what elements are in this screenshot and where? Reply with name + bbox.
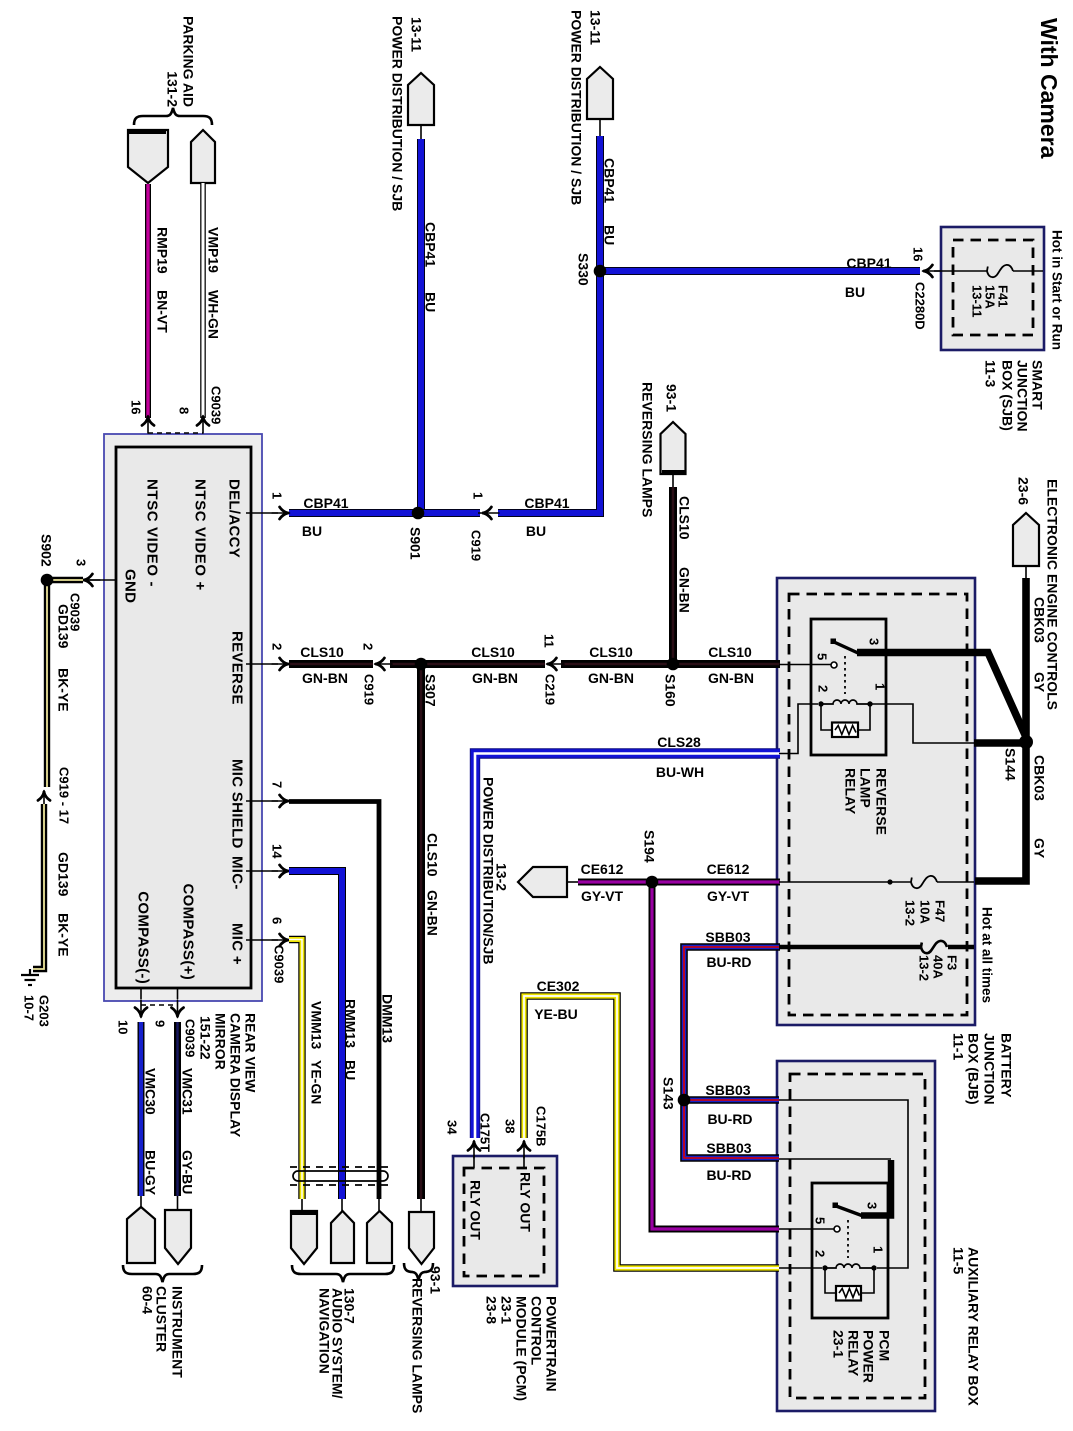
svg-text:YE-GN: YE-GN (309, 1060, 325, 1104)
svg-text:S144: S144 (1003, 748, 1019, 781)
svg-text:DEL/ACCY: DEL/ACCY (226, 479, 243, 558)
tap node on F47 line (887, 879, 892, 884)
svg-text:SMART: SMART (1030, 360, 1046, 410)
powertrain control module PCM outline (453, 1156, 557, 1286)
svg-text:C2280D: C2280D (913, 282, 928, 330)
svg-text:CBP41: CBP41 (303, 495, 348, 511)
thin line CLS10 to relay pin 5 (779, 664, 831, 666)
svg-text:GY-VT: GY-VT (581, 888, 623, 904)
connector reversing lamps top (661, 422, 686, 474)
svg-text:SBB03: SBB03 (706, 1140, 751, 1156)
fuse F3 40A (921, 941, 947, 953)
svg-text:COMPASS(-): COMPASS(-) (135, 891, 152, 984)
svg-text:REVERSE: REVERSE (229, 631, 246, 705)
connector audio VMM13 (291, 1211, 317, 1264)
svg-text:5: 5 (813, 1217, 828, 1224)
wire CLS10 GN-BN C919/S307 to C219 (390, 660, 545, 668)
svg-text:CAMERA DISPLAY: CAMERA DISPLAY (228, 1013, 244, 1138)
svg-text:BU-RD: BU-RD (707, 1111, 752, 1127)
splice S330 (594, 265, 607, 278)
pin 8 fork (197, 416, 209, 434)
svg-text:5: 5 (815, 653, 830, 660)
connector reversing lamps bottom (409, 1212, 434, 1264)
wire CLS10 GN-BN C219/S160 to BJB (561, 660, 780, 668)
svg-text:RELAY: RELAY (843, 768, 859, 815)
wire CLS10 GN-BN from reversing lamps (669, 487, 677, 664)
wire CBP41 BU long run to SJB (600, 267, 920, 275)
wire CLS10 GN-BN pin2 to C919 (289, 660, 373, 668)
relay actuator dotted line (844, 656, 846, 694)
svg-text:NAVIGATION: NAVIGATION (317, 1288, 333, 1374)
connector instrument cluster VMC31 (165, 1210, 191, 1264)
svg-text:151-22: 151-22 (198, 1016, 214, 1060)
aux relay actuator dotted line (847, 1220, 849, 1258)
PCM power relay box (812, 1183, 888, 1318)
svg-text:BOX (SJB): BOX (SJB) (1000, 360, 1016, 431)
svg-text:GN-BN: GN-BN (708, 670, 754, 686)
svg-text:16: 16 (911, 247, 926, 261)
mirror pin 1 fork (272, 507, 290, 519)
splice S902 (41, 574, 54, 587)
svg-text:10-7: 10-7 (22, 995, 37, 1021)
brace over parking aid connectors (134, 108, 212, 125)
splice S194 (646, 876, 659, 889)
svg-text:RLY OUT: RLY OUT (468, 1180, 484, 1240)
svg-text:JUNCTION: JUNCTION (1015, 360, 1031, 432)
brace under audio connectors (292, 1265, 394, 1282)
svg-text:REVERSING LAMPS: REVERSING LAMPS (640, 382, 656, 517)
svg-text:10: 10 (116, 1020, 131, 1034)
wire CE612 GY-VT (578, 879, 780, 886)
svg-text:GN-BN: GN-BN (425, 890, 441, 936)
link lines to audio connectors (302, 1199, 379, 1212)
twisted pair symbol (290, 1167, 392, 1185)
aux relay suppression resistor (836, 1286, 861, 1301)
PCM pin 38 fork (518, 1141, 530, 1159)
PCM pin 34 fork (468, 1141, 480, 1159)
PCM inner dashed box (464, 1168, 544, 1276)
wire CBK03 GY upper (1022, 578, 1030, 742)
splice S307 (415, 658, 428, 671)
pin 1 tail (246, 512, 278, 514)
relay suppression resistor (832, 723, 858, 738)
smart junction box SJB outline (941, 227, 1044, 350)
wire SBB03 BU-RD from BJB F3 down to S143 (684, 947, 780, 1100)
svg-text:CBK03: CBK03 (1032, 755, 1048, 801)
svg-text:PARKING AID: PARKING AID (181, 16, 197, 107)
wire GD139 BK-YE down (44, 580, 50, 787)
SJB fuse F41 feed line (934, 270, 1043, 272)
fuse F3 feed line (779, 945, 974, 949)
svg-text:VMC30: VMC30 (143, 1068, 159, 1115)
svg-text:23-1: 23-1 (499, 1296, 515, 1324)
svg-text:COMPASS(+): COMPASS(+) (180, 884, 197, 980)
svg-text:BU-WH: BU-WH (656, 764, 704, 780)
connector audio RMM13 (331, 1211, 354, 1263)
mirror pin 3 fork (83, 574, 101, 586)
svg-text:GY: GY (1032, 838, 1048, 859)
wire VMP19 WH-GN (200, 183, 206, 418)
thin line SBB03 to aux pin 3 (779, 1158, 891, 1160)
coil pin 2 node (818, 701, 823, 706)
svg-text:C919 - 17: C919 - 17 (57, 767, 72, 824)
svg-text:F3: F3 (945, 955, 960, 970)
svg-text:14: 14 (270, 844, 285, 859)
svg-text:CE612: CE612 (581, 861, 624, 877)
pin 6 tail (246, 939, 278, 941)
svg-text:BK-YE: BK-YE (56, 913, 72, 957)
svg-text:NTSC VIDEO -: NTSC VIDEO - (144, 479, 161, 587)
splice S143 (678, 1094, 691, 1107)
wire CBP41 BU from mirror pin 1 to S901 (289, 509, 418, 517)
in-line connector C219 pin 11 (547, 658, 565, 670)
svg-text:CBP41: CBP41 (846, 255, 891, 271)
svg-text:16: 16 (129, 400, 144, 414)
pin 34 tail (473, 1155, 475, 1168)
svg-text:C9039: C9039 (183, 1019, 198, 1057)
pin 16 fork (142, 416, 154, 434)
svg-text:10A: 10A (918, 900, 933, 924)
wire GD139 BK-YE to S902 (47, 577, 83, 583)
wire CBP41 BU through S330 down to junction corner (498, 136, 600, 513)
mirror pin 6 fork (272, 934, 290, 946)
dashed connector line C9039 top (148, 432, 203, 434)
svg-text:9: 9 (153, 1020, 168, 1027)
svg-text:2: 2 (816, 685, 831, 692)
svg-text:7: 7 (270, 781, 285, 788)
resistor parallel links (821, 704, 870, 730)
mirror pin 14 fork (272, 865, 290, 877)
svg-text:POWER DISTRIBUTION / SJB: POWER DISTRIBUTION / SJB (390, 16, 406, 211)
svg-text:BOX (BJB): BOX (BJB) (966, 1033, 982, 1105)
aux relay coil (825, 1264, 874, 1268)
svg-text:CLS10: CLS10 (708, 644, 752, 660)
svg-text:PCM: PCM (877, 1330, 893, 1361)
link line (420, 1199, 422, 1212)
svg-text:GY-BU: GY-BU (180, 1150, 196, 1194)
thin line relay pin 1 to box edge (870, 704, 974, 743)
svg-text:Hot in Start or Run: Hot in Start or Run (1050, 230, 1065, 350)
svg-text:93-1: 93-1 (664, 384, 680, 412)
wire RMM13 BU mic- (289, 871, 342, 1199)
svg-text:MIC +: MIC + (229, 923, 246, 965)
connector audio DMM13 (367, 1211, 392, 1263)
svg-text:CE612: CE612 (707, 861, 750, 877)
thin line CE302 to aux coil pin 2 (779, 1267, 822, 1269)
svg-text:C919: C919 (362, 674, 377, 705)
svg-text:CLS28: CLS28 (657, 734, 701, 750)
svg-text:GND: GND (122, 569, 139, 603)
svg-text:13-2: 13-2 (917, 955, 932, 981)
svg-text:VMC31: VMC31 (180, 1068, 196, 1115)
svg-text:S143: S143 (661, 1077, 677, 1110)
mirror inner box (116, 447, 251, 988)
svg-text:RMM13: RMM13 (343, 999, 359, 1048)
svg-text:2: 2 (361, 643, 376, 650)
wire VMM13 YE-GN mic+ (289, 940, 302, 1200)
svg-text:MODULE (PCM): MODULE (PCM) (514, 1296, 530, 1401)
svg-text:Hot at all times: Hot at all times (980, 907, 995, 1003)
svg-text:CLS10: CLS10 (471, 644, 515, 660)
svg-text:23-8: 23-8 (484, 1296, 500, 1324)
svg-text:S194: S194 (642, 830, 658, 863)
svg-text:CBP41: CBP41 (524, 495, 569, 511)
svg-text:6: 6 (270, 917, 285, 924)
svg-text:BU: BU (302, 523, 322, 539)
svg-text:VMP19: VMP19 (206, 227, 222, 273)
svg-text:CBP41: CBP41 (602, 158, 618, 203)
svg-text:S330: S330 (576, 253, 592, 286)
fuse F47 feed line (779, 881, 974, 883)
pin 9 tail (177, 988, 179, 999)
svg-text:VMM13: VMM13 (309, 1001, 325, 1049)
thin line CE612 to aux pin 5 (779, 1228, 834, 1230)
link line (672, 474, 674, 487)
svg-text:BU: BU (602, 225, 618, 245)
svg-text:INSTRUMENT: INSTRUMENT (170, 1286, 186, 1378)
battery junction box BJB outline (777, 578, 975, 1025)
svg-text:BN-VT: BN-VT (155, 290, 171, 333)
thin line CLS28 to relay coil pin 2 (779, 704, 818, 754)
svg-text:CLS10: CLS10 (589, 644, 633, 660)
svg-text:POWER: POWER (861, 1330, 877, 1383)
mirror pin 9 fork (172, 1000, 184, 1018)
svg-text:3: 3 (867, 638, 882, 645)
svg-text:REVERSING LAMPS: REVERSING LAMPS (410, 1278, 426, 1413)
svg-text:13-2: 13-2 (903, 900, 918, 926)
relay contact pin 5 (aux) (834, 1226, 840, 1232)
relay switch contact pin 3 (831, 639, 837, 645)
BJB inner dashed box (789, 594, 967, 1015)
svg-text:BU: BU (845, 284, 865, 300)
brace under reversing lamps connector (404, 1263, 433, 1280)
splice S144 (1019, 735, 1033, 749)
SJB inner dashed box (953, 240, 1033, 335)
svg-text:CBP41: CBP41 (423, 222, 439, 267)
auxiliary relay box outline (777, 1061, 935, 1411)
in-line connector C919 pin 1 (482, 507, 500, 519)
svg-text:CE302: CE302 (537, 978, 580, 994)
svg-text:3: 3 (865, 1202, 880, 1209)
svg-text:GD139: GD139 (56, 604, 72, 649)
svg-text:1: 1 (471, 492, 486, 499)
mirror pin 2 fork (272, 658, 290, 670)
svg-text:BATTERY: BATTERY (999, 1033, 1015, 1098)
svg-text:BU-RD: BU-RD (706, 954, 751, 970)
svg-text:CLS10: CLS10 (677, 496, 693, 540)
svg-text:C175T: C175T (478, 1113, 493, 1152)
pin 3 tail (89, 579, 116, 581)
svg-text:2: 2 (813, 1250, 828, 1257)
svg-text:With Camera: With Camera (1036, 18, 1062, 159)
mirror pin 10 fork (135, 1000, 147, 1018)
svg-text:GY: GY (1032, 672, 1048, 693)
aux relay pin 3 thick wire (861, 1160, 891, 1216)
svg-text:8: 8 (177, 407, 192, 414)
svg-text:POWER DISTRIBUTION/SJB: POWER DISTRIBUTION/SJB (481, 777, 497, 964)
svg-text:WH-GN: WH-GN (206, 290, 222, 339)
wire CBP41 BU S901 to C919 (418, 509, 480, 517)
fuse F41 15A (987, 265, 1013, 277)
connector parking aid RMP19 (128, 130, 168, 183)
svg-text:CLS10: CLS10 (425, 833, 441, 877)
svg-text:13-11: 13-11 (970, 285, 985, 318)
svg-text:13-11: 13-11 (409, 17, 425, 52)
svg-text:BU: BU (526, 523, 546, 539)
svg-text:23-6: 23-6 (1016, 477, 1032, 505)
svg-text:11-5: 11-5 (951, 1247, 967, 1274)
svg-text:REVERSE: REVERSE (874, 768, 890, 835)
brace under instrument cluster connectors (123, 1265, 202, 1282)
svg-text:LAMP: LAMP (858, 768, 874, 808)
wire RMP19 BN-VT (145, 184, 151, 418)
wire CE302 YE-BU (524, 996, 779, 1268)
svg-text:11-3: 11-3 (983, 360, 999, 387)
svg-text:RLY OUT: RLY OUT (518, 1172, 534, 1232)
svg-text:BK-YE: BK-YE (56, 668, 72, 712)
pin 14 tail (246, 870, 278, 872)
svg-text:GN-BN: GN-BN (677, 567, 693, 613)
wire CE612 GY-VT down to aux relay pin 5 (652, 882, 779, 1229)
svg-text:CLS10: CLS10 (300, 644, 344, 660)
svg-text:GY-VT: GY-VT (707, 888, 749, 904)
pin 16 fork C2280D (923, 265, 941, 277)
svg-text:BU-GY: BU-GY (143, 1150, 159, 1196)
svg-text:11-1: 11-1 (951, 1033, 967, 1060)
svg-text:BU: BU (343, 1060, 359, 1080)
thin line SBB03 to aux coil pin 1 (779, 1100, 908, 1268)
wire SBB03 BU-RD to aux relay contact (684, 1100, 779, 1158)
link line (599, 119, 601, 136)
rear view camera display mirror outer box (104, 434, 262, 1001)
svg-text:GD139: GD139 (56, 852, 72, 897)
svg-text:C175B: C175B (534, 1106, 549, 1146)
relay switch contact pin 3 (aux) (833, 1203, 839, 1209)
svg-text:GN-BN: GN-BN (302, 670, 348, 686)
wire CLS10 GN-BN down from S307 to reversing lamps bottom (417, 664, 425, 1199)
link lines (141, 1196, 178, 1210)
svg-text:POWERTRAIN: POWERTRAIN (544, 1296, 560, 1392)
splice S901 (412, 507, 425, 520)
pin 7 tail (246, 800, 278, 802)
svg-text:MIC-: MIC- (229, 856, 246, 890)
svg-text:RELAY: RELAY (846, 1330, 862, 1377)
svg-text:C9039: C9039 (272, 945, 287, 983)
svg-text:131-2: 131-2 (165, 71, 181, 107)
svg-text:NTSC VIDEO +: NTSC VIDEO + (192, 479, 209, 591)
svg-text:G203: G203 (37, 995, 52, 1027)
svg-text:BU: BU (423, 292, 439, 312)
svg-text:S901: S901 (408, 527, 424, 560)
relay coil (821, 700, 870, 704)
wire CLS28 BU-WH / C175T (475, 754, 780, 1139)
svg-text:GN-BN: GN-BN (588, 670, 634, 686)
svg-text:BU-RD: BU-RD (706, 1167, 751, 1183)
svg-text:C919: C919 (469, 530, 484, 561)
svg-text:MIRROR: MIRROR (213, 1013, 229, 1070)
svg-text:60-4: 60-4 (140, 1286, 156, 1314)
svg-text:POWER DISTRIBUTION / SJB: POWER DISTRIBUTION / SJB (569, 10, 585, 205)
svg-text:C9039: C9039 (209, 386, 224, 424)
svg-text:1: 1 (871, 1246, 886, 1253)
svg-text:AUXILIARY RELAY BOX: AUXILIARY RELAY BOX (966, 1247, 982, 1406)
splice S160 (667, 658, 680, 671)
coil pin 1 node (867, 701, 872, 706)
in-line connector C919 pin 2 (375, 658, 393, 670)
wire DMM13 mic shield (289, 802, 379, 1200)
wire GD139 BK-YE to ground (33, 804, 44, 969)
aux coil pin 2 node (822, 1265, 827, 1270)
wire relay pin1 to S144 (974, 739, 1026, 747)
connector power distribution SJB #2 (587, 67, 613, 119)
fuse F47 10A (911, 876, 937, 888)
svg-text:GN-BN: GN-BN (472, 670, 518, 686)
wire VMC31 GY-BU (174, 1022, 181, 1196)
svg-text:11: 11 (542, 634, 557, 648)
svg-text:38: 38 (503, 1119, 518, 1133)
in-line connector C919 pin 17 (38, 791, 50, 809)
svg-text:40A: 40A (931, 955, 946, 979)
svg-text:S902: S902 (39, 534, 55, 567)
svg-text:C219: C219 (543, 674, 558, 705)
svg-text:1: 1 (270, 492, 285, 499)
pin 10 tail (140, 988, 142, 999)
svg-text:F47: F47 (933, 900, 948, 922)
aux coil pin 1 node (871, 1265, 876, 1270)
connector instrument cluster VMC30 (127, 1207, 155, 1263)
relay pin 3 thick output wire (857, 653, 1026, 738)
wire SBB03 BU-RD to aux relay coil (684, 1096, 779, 1104)
reverse lamp relay box (811, 619, 886, 755)
svg-text:SBB03: SBB03 (705, 929, 750, 945)
relay contact pin 5 (831, 662, 837, 668)
connector power distribution 13-2 (left arrow) (518, 867, 567, 897)
svg-text:YE-BU: YE-BU (534, 1006, 578, 1022)
link line (420, 125, 422, 139)
wire VMC30 BU-GY (138, 1022, 145, 1196)
mirror pin 7 fork (272, 795, 290, 807)
svg-text:DMM13: DMM13 (380, 994, 396, 1043)
svg-text:1: 1 (873, 683, 888, 690)
svg-text:3: 3 (74, 559, 89, 566)
svg-text:13-11: 13-11 (588, 10, 604, 45)
pin 38 tail (523, 1155, 525, 1168)
aux relay box inner dashed (790, 1074, 925, 1398)
svg-text:MIC SHIELD: MIC SHIELD (229, 759, 246, 849)
svg-text:CBK03: CBK03 (1032, 597, 1048, 643)
svg-text:CONTROL: CONTROL (529, 1296, 545, 1366)
svg-text:REAR VIEW: REAR VIEW (243, 1013, 259, 1093)
dashed connector line C9039 bottom (141, 1004, 177, 1006)
svg-text:S160: S160 (663, 674, 679, 707)
svg-text:23-1: 23-1 (831, 1330, 847, 1358)
connector parking aid VMP19 (191, 130, 215, 183)
connector electronic engine controls (1013, 513, 1039, 566)
aux resistor parallel links (825, 1268, 874, 1293)
svg-text:93-1: 93-1 (428, 1266, 444, 1294)
svg-text:2: 2 (270, 643, 285, 650)
svg-text:34: 34 (445, 1120, 460, 1135)
link line (567, 881, 578, 883)
link line (1025, 566, 1027, 578)
svg-text:SBB03: SBB03 (705, 1082, 750, 1098)
ground G203 symbol (21, 969, 39, 985)
pin 2 tail (246, 663, 278, 665)
svg-text:RMP19: RMP19 (155, 227, 171, 274)
wire CBP41 BU from connector 1 (417, 139, 425, 510)
svg-text:JUNCTION: JUNCTION (982, 1033, 998, 1105)
connector power distribution SJB #1 (408, 73, 434, 125)
